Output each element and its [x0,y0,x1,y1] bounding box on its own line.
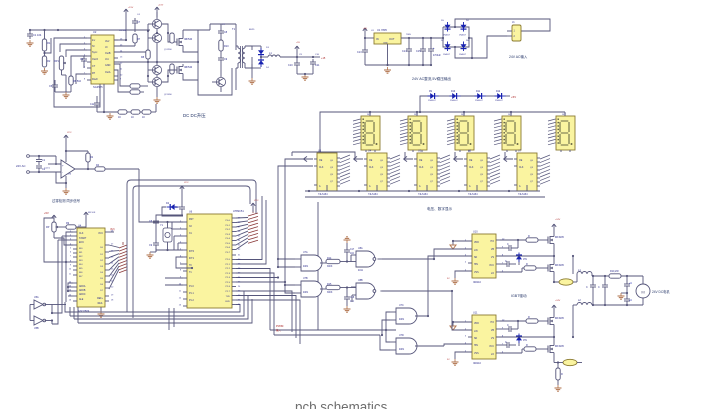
resistor U11 gate lo [500,344,545,353]
power arrow U11 vdd [450,321,472,330]
diode D2 [258,57,264,67]
and gate U7B [295,277,326,297]
svg-text:P0.4: P0.4 [226,238,231,240]
nand gate U8B [351,279,382,302]
svg-text:C14: C14 [402,50,407,53]
svg-text:VB: VB [491,330,495,332]
svg-text:4081: 4081 [399,319,405,321]
svg-text:OscO: OscO [92,58,98,61]
transistor Q5 [212,68,226,92]
resistor R21 [326,283,356,294]
text pin numbers U11 [465,320,505,354]
wire inverter nets [30,305,66,325]
svg-text:C: C [505,260,507,263]
wire SR bottom 5 [508,190,527,192]
svg-text:OE: OE [319,160,323,162]
svg-text:M: M [641,290,644,295]
op-amp U2A LM358 [61,160,75,178]
svg-text:R6 510: R6 510 [73,80,82,83]
input arrow U7 [504,156,513,161]
svg-text:NI: NI [92,45,95,48]
text pin numbers U10 [465,239,505,273]
shift register U7 74LS164 [514,150,540,197]
svg-text:5C: 5C [447,278,450,280]
svg-text:IN: IN [376,37,379,41]
wire gate input runs [270,172,396,335]
ground C1 [27,40,34,46]
svg-text:R10,2W: R10,2W [610,270,619,273]
resistor R15 [142,110,151,119]
svg-text:+24V: +24V [555,219,561,221]
wire pot to adc [44,218,73,262]
svg-text:R14: R14 [327,257,332,260]
svg-text:OE: OE [419,160,423,162]
svg-text:24V AC输入: 24V AC输入 [509,54,528,59]
wire gate drive 2 [162,70,174,82]
svg-text:R1: R1 [47,41,51,45]
svg-text:R: R [526,263,528,266]
wire bus ripple U3 [340,155,350,184]
svg-text:R: R [528,316,530,319]
svg-text:LIN: LIN [474,250,478,252]
wire gnd rail B [365,64,432,66]
svg-text:4081: 4081 [399,349,405,351]
svg-text:C17: C17 [350,249,355,251]
wire bus ripple U7 [540,155,550,184]
wire adc data bus [109,245,119,289]
svg-text:+15: +15 [321,57,326,60]
svg-text:P2.5: P2.5 [226,282,231,284]
wire bridge to connector [431,19,550,59]
svg-text:Vref: Vref [105,40,110,43]
svg-text:Comm: Comm [44,168,50,170]
svg-text:15V: 15V [523,340,528,342]
text motor label [652,289,670,294]
power arrow U10 vdd [450,240,472,249]
svg-text:C: C [507,324,509,327]
svg-text:300K: 300K [327,292,333,294]
capacitor C16 electrolytic [428,38,441,65]
svg-text:HIN: HIN [474,345,478,347]
power +5V adc [84,212,88,228]
power vcc mcu [180,186,184,200]
voltage regulator U1 7805 [374,28,401,65]
display DS2 seven-segment [400,112,427,152]
capacitor C8 [218,28,228,36]
svg-text:ADDC: ADDC [79,293,86,296]
potentiometer RP2 [46,222,59,238]
capacitor C25 electrolytic [624,276,632,293]
diode D8 bridge [459,40,470,56]
capacitor C11 [297,56,320,74]
svg-text:RP: RP [46,226,50,229]
zener D14 blue [516,253,528,266]
ground output [302,73,309,80]
svg-text:+5V: +5V [363,28,367,30]
wire gate D nets [380,312,444,350]
input arrow U4 [354,156,363,161]
text +5V label C [511,95,516,99]
svg-text:RP1: RP1 [54,60,59,63]
text pcb schematics caption [295,400,388,414]
resistor U10 gate lo [500,263,545,272]
svg-text:OutA: OutA [105,71,111,74]
text pin numbers U4 [69,231,114,302]
svg-text:VDD: VDD [474,323,479,325]
diode D11 [475,91,486,102]
wire bus ripple U6 [490,155,500,184]
svg-text:VCC: VCC [489,346,494,348]
display DS3 seven-segment [447,112,474,152]
and gate U7D [390,334,421,354]
svg-text:VCC: VCC [254,200,259,202]
resistor R2 [42,51,51,67]
svg-text:+5V: +5V [296,42,300,44]
input arrow U6 [454,156,463,161]
resistor R23 [609,270,621,278]
wire SR bottom 3 [408,190,427,192]
wire bus ripple U5 [440,155,450,184]
resistor R13 [118,110,127,119]
svg-text:CT: CT [92,65,96,68]
svg-text:Q2 8050: Q2 8050 [164,94,173,96]
capacitor C10 [288,57,313,74]
resistor R11 [130,84,148,88]
diode D5 bridge [441,20,451,37]
svg-text:VSS: VSS [474,272,479,274]
svg-text:C12: C12 [90,103,95,106]
wire SR bottom 1 [308,190,327,192]
svg-text:P2.3: P2.3 [226,273,231,275]
svg-text:OE: OE [369,160,373,162]
svg-text:U10: U10 [473,231,478,234]
svg-text:R2: R2 [47,59,51,63]
svg-text:INT1: INT1 [189,258,195,260]
svg-text:OutB: OutB [105,52,111,55]
svg-text:+C: +C [629,299,632,302]
svg-text:START: START [79,237,87,240]
potentiometer RP1 [54,56,66,75]
ground transformer [249,57,256,84]
svg-text:P2.6: P2.6 [226,286,231,288]
wire snubber rail [210,24,236,30]
capacitor C19 [149,236,159,252]
svg-text:P0.6: P0.6 [226,247,231,249]
svg-text:+5V: +5V [44,211,49,215]
transformer T1 [232,24,252,90]
power +15V arrow A1 [124,9,128,14]
wire mosfet loop [114,30,232,95]
svg-text:OUT: OUT [389,37,395,41]
svg-text:IRF3205: IRF3205 [555,318,565,320]
svg-text:1K: 1K [142,116,145,119]
shift register U3 74LS164 [314,150,340,197]
svg-text:VSS: VSS [474,353,479,355]
wire pwm outputs [114,64,130,92]
svg-text:Sync: Sync [92,51,98,54]
capacitor C22 [344,288,355,307]
text zero-cross caption [52,198,81,203]
wire feedback loop [54,38,100,107]
wire adc vcc label [109,228,115,232]
diode D6 bridge [459,20,470,37]
resistor R25 [170,64,174,74]
capacitor C20 reset [175,200,185,216]
capacitor C26 electrolytic [624,294,632,305]
svg-text:IRF3205: IRF3205 [555,265,565,267]
svg-text:P2.0: P2.0 [226,259,231,261]
svg-text:EOC: EOC [79,242,84,244]
capacitor C12 [90,96,104,112]
mosfet U10 high Q [545,234,565,246]
ground regulator [384,67,391,73]
svg-text:DPY: DPY [367,114,372,116]
driver IC U10 IR2110 [468,231,500,285]
svg-text:24V DC电机: 24V DC电机 [652,289,670,294]
power output arrow [295,46,299,58]
svg-text:DC DC升压: DC DC升压 [183,112,206,119]
ground crystal [147,248,157,258]
svg-text:1N4007: 1N4007 [475,100,483,102]
resistor network RN2 [248,203,258,243]
svg-text:U2: U2 [93,30,97,34]
wire reg input [364,37,374,39]
op-amp U2 PWM IC SG3525 [87,30,118,89]
svg-text:P1.0: P1.0 [189,286,194,288]
svg-text:IRF540: IRF540 [184,66,193,69]
resistor R10 [219,36,229,55]
text IGBT caption [511,293,527,298]
svg-text:1N4007: 1N4007 [428,100,436,102]
svg-text:P2.4: P2.4 [226,277,231,279]
ground U11 vss [447,352,472,365]
svg-text:U5B: U5B [34,327,39,330]
svg-text:D10: D10 [451,91,456,93]
crystal Y1 [160,222,172,250]
driver IC U11 IR2110 [468,312,500,366]
ground loop [62,75,70,98]
transistor Q1 [148,12,162,33]
wire sync to mcu [139,169,183,222]
svg-text:P2.2: P2.2 [226,268,231,270]
svg-text:7805: 7805 [406,34,412,36]
wire mcu P0 fan [236,218,248,250]
svg-text:DPY: DPY [508,114,513,116]
svg-text:D12: D12 [496,91,501,93]
svg-text:1N4007: 1N4007 [450,100,458,102]
power +15V arrow A2 [155,7,159,12]
inductor L2 [573,299,592,305]
resistor R14 [131,110,140,119]
ground C21 up [344,237,351,243]
svg-text:+15V: +15V [128,7,134,9]
resistor R8 [141,38,150,70]
svg-text:IGBT驱动: IGBT驱动 [511,293,527,298]
svg-text:HIN: HIN [474,264,478,266]
svg-text:+5V: +5V [511,95,516,99]
svg-text:RT: RT [92,72,96,75]
text pin numbers U6 [179,218,241,307]
svg-text:C3 104: C3 104 [119,30,127,32]
svg-text:VS: VS [491,257,495,259]
svg-text:U7C: U7C [399,304,404,307]
wire driver inputs [421,249,472,346]
svg-text:ALE: ALE [79,298,84,301]
mosfet M2 IRF540 [174,64,193,76]
power arrow U10 drain [552,224,556,234]
and gate U7A [295,251,326,271]
nand gate U8A [351,247,382,272]
resistor U10 gate hi [500,235,545,242]
wire reg output [401,37,443,39]
text PWM label [276,324,284,332]
diode D10 [450,91,461,102]
wire comm [44,164,56,170]
diode D12 [495,91,506,102]
svg-text:300K: 300K [327,266,333,268]
resistor R24 [170,33,174,43]
ground chain [103,111,114,119]
svg-text:VCC: VCC [489,265,494,267]
capacitor C24 [598,276,608,305]
svg-text:IRF3205: IRF3205 [555,346,565,348]
svg-text:74LS164: 74LS164 [368,193,378,196]
svg-text:24V AC整流,5V稳压输出: 24V AC整流,5V稳压输出 [412,76,452,81]
svg-text:IRF3205: IRF3205 [555,237,565,239]
svg-text:SD: SD [474,338,478,340]
svg-text:LIN: LIN [474,331,478,333]
mosfet U10 low Q [545,262,565,274]
svg-text:1K: 1K [118,116,121,119]
shift register U4 74LS164 [364,150,390,197]
svg-text:LO: LO [491,273,494,275]
svg-text:ADDB: ADDB [79,289,86,292]
text value labels misc [67,5,561,303]
svg-text:C1 104: C1 104 [33,33,42,37]
svg-text:OE: OE [519,160,523,162]
svg-text:U5A: U5A [34,296,39,299]
wire SR bottom rail [305,185,545,197]
svg-text:4700uF: 4700uF [433,55,441,57]
svg-text:输入: 输入 [276,328,281,332]
svg-text:CLK: CLK [469,167,474,169]
svg-text:1N4007: 1N4007 [495,100,503,102]
capacitor C17 [36,155,46,165]
svg-text:P0.7: P0.7 [226,252,231,254]
resistor R16 [66,151,94,169]
svg-text:LM: LM [68,174,71,176]
diode D7 bridge [441,40,451,56]
wire U11 output node [496,305,574,363]
terminal IN1 [27,155,39,158]
resistor R18 [59,222,87,229]
resistor R1 [42,30,51,51]
svg-text:C15: C15 [416,50,421,53]
display DS4 seven-segment [494,112,521,152]
wire mcu left pins [165,222,193,285]
input arrow U5 [404,156,413,161]
wire crystal [156,221,183,251]
capacitor C18 [149,215,183,231]
and gate U7C [390,304,421,324]
svg-text:GND: GND [105,64,111,67]
inverter U5A [30,296,52,309]
wire OE CLK runs [278,152,513,186]
text rectifier caption [412,76,452,81]
wire R1 tap [43,38,51,54]
svg-text:CLK: CLK [419,167,424,169]
capacitor C23 [586,276,596,305]
svg-text:P0.2: P0.2 [226,229,231,231]
svg-text:1N4007: 1N4007 [443,54,451,56]
svg-text:LO: LO [491,354,494,356]
ground motor mid [618,292,629,299]
svg-text:CLK: CLK [519,167,524,169]
svg-text:4081: 4081 [303,266,309,268]
text 24VAC label D [16,164,25,168]
svg-text:24V AC: 24V AC [16,164,25,168]
svg-text:+24V: +24V [555,300,561,302]
resistor R17 [95,164,139,171]
svg-text:RXD: RXD [225,301,230,303]
svg-text:CLK: CLK [79,233,84,235]
svg-text:+C: +C [629,282,632,285]
connector J1 24VAC [507,21,521,41]
svg-text:1N4007: 1N4007 [459,54,467,56]
fuse F1 yellow [559,274,577,285]
svg-text:C10: C10 [175,206,180,209]
capacitor U10 vcc [500,260,516,267]
resistor network RN1 [119,242,127,273]
fuse F2 yellow [554,359,582,365]
svg-text:IRF540: IRF540 [184,38,193,41]
svg-text:C10: C10 [288,64,293,67]
wire mcu bottom bus [65,202,318,330]
resistor R20 [326,257,356,268]
svg-text:pcb schematics: pcb schematics [295,400,388,410]
svg-text:4011: 4011 [358,270,364,272]
svg-text:HO: HO [491,241,495,243]
capacitor U11 vcc [500,341,516,348]
svg-text:IR2110: IR2110 [473,281,481,284]
svg-text:DPY: DPY [562,114,567,116]
wire igbt mid [553,281,555,283]
svg-text:U7D: U7D [399,334,404,337]
wire rectifier out [252,46,268,68]
wire SR bottom 4 [458,190,477,192]
ground R22 [555,385,562,391]
text DC DC label [183,112,206,119]
wire opamp inputs [39,156,61,172]
svg-text:CLK: CLK [369,167,374,169]
inductor L1 [577,269,592,276]
svg-text:-: - [62,170,63,174]
capacitor C7 [132,18,141,32]
transistor Q2 [147,24,162,48]
svg-text:U8A: U8A [358,247,363,250]
mcu U6 AT89C51 [183,209,244,308]
svg-text:Q1 8550: Q1 8550 [164,49,173,51]
resistor R19 reset [190,250,198,268]
svg-text:EE25: EE25 [249,29,255,31]
svg-text:U7A: U7A [303,251,308,254]
svg-text:VDD: VDD [474,242,479,244]
capacitor C21 [344,243,355,262]
svg-text:AT89C51: AT89C51 [233,209,244,213]
svg-text:P0.5: P0.5 [226,243,231,245]
shift register U5 74LS164 [414,150,440,197]
svg-text:P0.1: P0.1 [226,225,231,227]
